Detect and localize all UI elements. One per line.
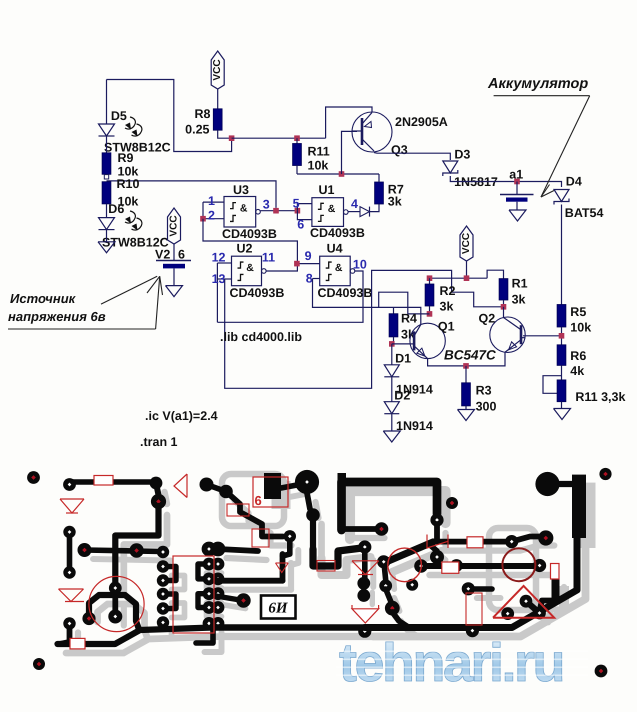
resistor R3 300 [465, 366, 467, 383]
trace right border [365, 538, 577, 628]
svg-text:R11: R11 [308, 145, 330, 159]
pad P3 [151, 494, 166, 509]
pad small right [446, 497, 458, 509]
wire D5 anode up [106, 80, 108, 125]
pcb copper ghost shadow layer [66, 481, 596, 653]
silk transistor circle right [502, 548, 535, 581]
svg-text:Источник: Источник [10, 291, 77, 306]
wire D3 to a1 to D4 [450, 176, 561, 187]
wire R11 bottom to node [296, 166, 298, 175]
trace left column vertical [67, 532, 73, 573]
gray rounded appendix right [489, 528, 536, 610]
pad on rail [358, 625, 371, 638]
pad diag end [377, 555, 390, 568]
bar U leg top [338, 473, 347, 486]
svg-text:R9: R9 [118, 151, 134, 165]
U4 pin8 wire [313, 278, 320, 280]
ground under R11b [561, 402, 563, 409]
svg-text:6: 6 [178, 247, 185, 261]
trace row3 [468, 586, 492, 592]
wire VCC1 to R8 [217, 89, 219, 109]
svg-text:R2: R2 [440, 284, 456, 298]
resistor R10 10k [102, 182, 111, 204]
wire D4 to R5 long vertical [561, 205, 563, 305]
svg-text:U3: U3 [233, 183, 249, 197]
silk tall rect right [466, 593, 482, 625]
mount pad bottom left [33, 658, 45, 670]
svg-text:R8: R8 [195, 107, 211, 121]
junction R11 top [294, 135, 300, 141]
vcc flag VCC1 [211, 51, 224, 89]
svg-text:.ic V(a1)=2.4: .ic V(a1)=2.4 [145, 409, 218, 423]
pad P8 [219, 485, 233, 499]
svg-text:VCC: VCC [212, 59, 223, 80]
trace pad pair link [361, 583, 366, 595]
svg-text:R10: R10 [117, 177, 140, 191]
silk resistor near cap [227, 504, 249, 516]
pad tri a [520, 595, 533, 608]
trace speaker link [548, 481, 573, 487]
wire base node to D1 [391, 344, 393, 365]
svg-text:8: 8 [306, 272, 313, 286]
resistor R4 3k [393, 307, 395, 313]
U3 pin wires 1 2 [203, 201, 224, 203]
diode D1 1N914 [384, 365, 399, 377]
svg-text:1: 1 [208, 194, 215, 208]
wire Q2 base to divider [523, 335, 562, 337]
trace diag down [385, 568, 386, 580]
svg-text:STW8B12C: STW8B12C [104, 141, 171, 155]
trace bottom-left rail [58, 628, 214, 645]
svg-text:D6: D6 [108, 202, 124, 216]
transistor Q2 BC547C [490, 317, 525, 352]
svg-text:R3: R3 [476, 384, 492, 398]
pad P6 [129, 543, 143, 557]
silk transistor circle middle [388, 548, 422, 582]
U4 pin8 net to comparator [313, 279, 421, 325]
wire Q3 emitter riser [326, 107, 372, 138]
svg-text:Q2: Q2 [479, 311, 496, 325]
svg-text:D2: D2 [394, 389, 410, 403]
diode at U1 output [360, 207, 370, 217]
pad red mid [385, 601, 400, 616]
wire Q1 base [392, 343, 410, 345]
trace mid col vertical [310, 515, 316, 549]
pad P5 [78, 543, 92, 557]
trace bottom-left stub [60, 624, 70, 645]
pad P2 [150, 477, 163, 490]
wire D1 to D2 [391, 377, 393, 401]
pads IC column B [202, 542, 217, 557]
svg-text:&: & [335, 262, 343, 274]
svg-text:3: 3 [263, 197, 270, 211]
svg-text:D1: D1 [395, 351, 411, 365]
trace bottom rail [213, 624, 365, 631]
vcc flag comparator [460, 226, 473, 261]
node a1 [514, 179, 520, 185]
pad pair upper [357, 577, 370, 590]
svg-text:Q3: Q3 [391, 143, 408, 157]
svg-text:U2: U2 [237, 242, 253, 256]
silk diode mid lower white filled [352, 609, 379, 623]
trace triangle link [526, 601, 540, 613]
diode D3 1N5817 [443, 161, 458, 173]
trace row2 [421, 563, 542, 569]
U1 output pin4 and diode [348, 211, 360, 213]
pad on rail right [466, 624, 479, 637]
trace B6 down left [196, 623, 213, 643]
resistor R11 3,3k [557, 380, 566, 402]
resistor R5 10k [557, 305, 566, 328]
callout arrow to battery [494, 95, 590, 97]
ground under D6 [106, 230, 108, 242]
svg-text:CD4093B: CD4093B [222, 227, 277, 241]
silk cap rect with 6 [253, 477, 288, 507]
emitter rail [428, 352, 505, 366]
silk small diode near 282 [276, 562, 289, 564]
pad mid col [306, 508, 320, 522]
mount pad bottom right [595, 665, 608, 678]
svg-text:4k: 4k [570, 364, 584, 378]
U3 output pin3 [261, 210, 298, 212]
mount pad top left [27, 471, 40, 484]
wire D5 to R9 [106, 137, 108, 153]
trace mid col elbow [313, 548, 362, 566]
pad row2 left [414, 559, 428, 573]
ground under R3 [465, 406, 467, 410]
diode D4 BAT54 [554, 190, 569, 202]
silk top middle diode [186, 474, 188, 498]
U2 output to U4 pin9 with jog [266, 264, 320, 271]
vcc rail comparator [430, 277, 488, 279]
speaker big pad [535, 472, 559, 496]
svg-text:CD4093B: CD4093B [318, 286, 373, 300]
svg-text:2N2905A: 2N2905A [395, 115, 448, 129]
svg-text:&: & [240, 203, 248, 215]
bar right edge [552, 578, 560, 602]
svg-text:D3: D3 [454, 148, 470, 162]
diode D2 1N914 [384, 402, 399, 414]
svg-text:U1: U1 [319, 183, 335, 197]
trace A6 to rail [160, 623, 165, 628]
pad Q base [108, 610, 122, 624]
node junction R8/R11 rail [229, 135, 235, 141]
svg-text:13: 13 [212, 272, 226, 286]
ground under D2 [391, 414, 393, 431]
pad row3 left [462, 582, 475, 595]
trace thick U top right [342, 482, 438, 530]
wire node y174 [297, 173, 379, 175]
trace mid vertical [280, 554, 286, 581]
trace U leg bottom right [342, 526, 377, 532]
feedback loop bottom rectangle [225, 270, 504, 388]
mount pad top right [599, 468, 611, 480]
resistor R1 3k [499, 279, 508, 300]
wire Q3 collector to D3 [374, 153, 450, 161]
svg-text:4: 4 [351, 197, 358, 211]
wire R8 to junction [218, 130, 232, 138]
wire R5 R6 junction [561, 327, 563, 345]
trace B1 right [218, 549, 258, 551]
gate U2 CD4093B [232, 256, 262, 286]
wire R1 bottom junction [503, 300, 505, 307]
svg-text:11: 11 [262, 251, 275, 265]
svg-text:10: 10 [353, 258, 367, 272]
pad row1 end [538, 530, 553, 545]
pad P7 [200, 478, 214, 492]
gate U4 CD4093B [320, 256, 351, 286]
silk diode left upper [60, 498, 84, 500]
svg-text:3k: 3k [388, 195, 402, 209]
trace IC jog A4-A5 [163, 594, 176, 609]
silk resistor right edge [551, 564, 560, 580]
svg-text:R11 3,3k: R11 3,3k [575, 390, 625, 404]
pad tri c [501, 607, 514, 620]
svg-text:Аккумулятор: Аккумулятор [487, 76, 588, 92]
svg-text:Q1: Q1 [438, 320, 455, 334]
pad row2 mid [450, 559, 463, 572]
node small square between R9 R10 [104, 175, 108, 179]
svg-text:.tran 1: .tran 1 [140, 435, 178, 449]
pad row2 start [430, 550, 444, 564]
svg-text:BAT54: BAT54 [565, 206, 604, 220]
trace row1 right [437, 524, 546, 542]
trace big pad down [307, 493, 310, 509]
pad mid lower [379, 579, 392, 592]
wire Q3 base [342, 131, 358, 174]
transistor Q3 PNP 2N2905A [352, 112, 392, 152]
ground under battery [509, 210, 526, 221]
pad diode top [358, 540, 371, 553]
battery V1 accumulator [516, 182, 518, 195]
U2 pins 12 13 [217, 262, 231, 264]
diode D6 STW8B12C [106, 204, 108, 218]
trace P7 to P8 [207, 485, 227, 492]
transistor Q1 BC547C [410, 323, 445, 358]
silk resistor row2 [442, 562, 459, 573]
trace cap to big pad [281, 485, 297, 488]
pad mid [284, 530, 296, 542]
R2 bottom to pin8 net jog [379, 292, 430, 314]
pad tri b [533, 607, 546, 620]
trace B4 to central pad [216, 596, 237, 600]
pad small mid [406, 579, 418, 591]
resistor R2 3k [429, 278, 431, 284]
svg-text:&: & [246, 262, 254, 274]
silk resistor bottom left rail [70, 638, 85, 649]
pad U right leg [430, 513, 443, 526]
trace P2 to P3 [156, 483, 159, 495]
callout arrow to V2 [8, 328, 156, 330]
pad central [236, 593, 250, 607]
ground under V2 [166, 286, 183, 297]
pad U bottom [375, 522, 389, 536]
gate U1 CD4093B [312, 198, 344, 227]
svg-text:R5: R5 [570, 305, 586, 319]
gate U3 CD4093B [224, 197, 256, 228]
svg-text:BC547C: BC547C [444, 348, 496, 363]
pad Q emitter [82, 612, 95, 625]
trace mid down [283, 541, 290, 556]
trace Q1 center stub [112, 597, 118, 617]
watermark stripes [336, 651, 588, 653]
svg-text:CD4093B: CD4093B [310, 226, 365, 240]
wire top-left loop from D5 to R8 junction [107, 80, 232, 152]
pads IC column A [157, 546, 169, 558]
trace B3 long right [216, 578, 283, 584]
svg-text:2: 2 [208, 209, 215, 223]
svg-text:&: & [328, 203, 336, 215]
battery V2 6V source [173, 244, 175, 260]
svg-text:10k: 10k [570, 321, 591, 335]
trace right edge elbow [540, 578, 556, 611]
svg-text:5: 5 [293, 197, 300, 211]
silk transistor circle bottom left [89, 576, 144, 631]
silk resistor mid y566 [317, 561, 335, 572]
trace IC jog A2-A3 [163, 567, 176, 581]
silk resistor row1 [467, 537, 483, 548]
trace to red pad [386, 589, 391, 602]
trace IC jog B2-B3 [198, 564, 213, 579]
svg-text:3k: 3k [512, 293, 526, 307]
svg-text:tehnari.ru: tehnari.ru [339, 633, 563, 693]
capacitor body black [264, 473, 281, 499]
wire R9/R10 tap to U3 output [107, 181, 277, 208]
svg-text:300: 300 [476, 399, 497, 413]
trace red pad to rail [392, 612, 409, 628]
trace IC jog B4-B5 [198, 594, 213, 608]
svg-text:D5: D5 [111, 109, 127, 123]
pad pair lower [357, 589, 370, 602]
trace top-left resistor run [70, 479, 157, 485]
silk diode left lower [59, 588, 84, 590]
diode D5 STW8B12C [99, 124, 115, 136]
svg-text:R4: R4 [401, 312, 417, 326]
silk triangle bottom right [493, 586, 554, 618]
svg-text:напряжения 6в: напряжения 6в [8, 309, 106, 324]
gray rounded box around cap [222, 474, 284, 526]
svg-text:a1: a1 [509, 167, 523, 181]
silk resistor top left [94, 476, 113, 486]
wire rail y138 to Q3 emitter riser [232, 137, 326, 139]
speaker bar [572, 475, 586, 538]
trace row2 start stub [430, 545, 437, 551]
svg-text:VCC: VCC [461, 233, 472, 254]
trace P3 down to Q pad [115, 506, 158, 585]
svg-text:9: 9 [305, 249, 312, 263]
trace diagonal mid [384, 542, 433, 563]
wire R2 bottom junction [429, 306, 431, 314]
svg-text:VCC: VCC [169, 215, 180, 236]
pad P4a [63, 526, 75, 538]
vcc flag above V2 [168, 208, 181, 244]
svg-text:6И: 6И [268, 601, 289, 617]
U1 input ties pins 5 6 [297, 204, 312, 211]
svg-text:6: 6 [255, 493, 262, 508]
big round pad [295, 470, 319, 494]
resistor R9 10k [102, 153, 111, 175]
resistor R7 3k [375, 182, 384, 204]
svg-text:6: 6 [297, 218, 304, 232]
svg-text:CD4093B: CD4093B [230, 286, 285, 300]
pad row1 mid [505, 535, 518, 548]
pad P1 [63, 478, 76, 491]
svg-text:R6: R6 [570, 349, 586, 363]
svg-text:U4: U4 [327, 242, 343, 256]
wire Q2 collector [503, 307, 505, 318]
svg-text:1N914: 1N914 [396, 419, 433, 433]
silk ic outline [173, 556, 214, 633]
svg-text:R1: R1 [512, 277, 528, 291]
pad bottom-left [63, 617, 75, 629]
svg-text:10k: 10k [308, 159, 329, 173]
pad row2 right [533, 559, 546, 572]
resistor R6 4k [557, 345, 566, 366]
trace row y550 [85, 550, 163, 552]
pad Q collector [109, 582, 122, 595]
resistor R11 10k [296, 138, 298, 143]
svg-text:12: 12 [212, 251, 226, 265]
wire R4 bottom to base node [393, 337, 395, 344]
silk diode mid upper [352, 560, 379, 562]
trace transistor arch [89, 595, 139, 628]
svg-text:0.25: 0.25 [185, 123, 209, 137]
trace diode vertical [362, 551, 368, 578]
U3 pin2 net down to gate row2 [203, 219, 297, 264]
svg-text:D4: D4 [566, 175, 582, 189]
wire R6 to R11b with bracket [561, 365, 563, 380]
silk diode right row1 [427, 535, 448, 549]
wire diode to R7 [370, 204, 380, 212]
resistor R8 [213, 109, 222, 130]
trace P8 zigzag down [226, 492, 283, 537]
svg-text:.lib cd4000.lib: .lib cd4000.lib [220, 330, 302, 344]
label 6I box [261, 596, 296, 619]
svg-text:V2: V2 [155, 247, 170, 261]
pad P4b [63, 566, 75, 578]
svg-text:3k: 3k [440, 300, 454, 314]
